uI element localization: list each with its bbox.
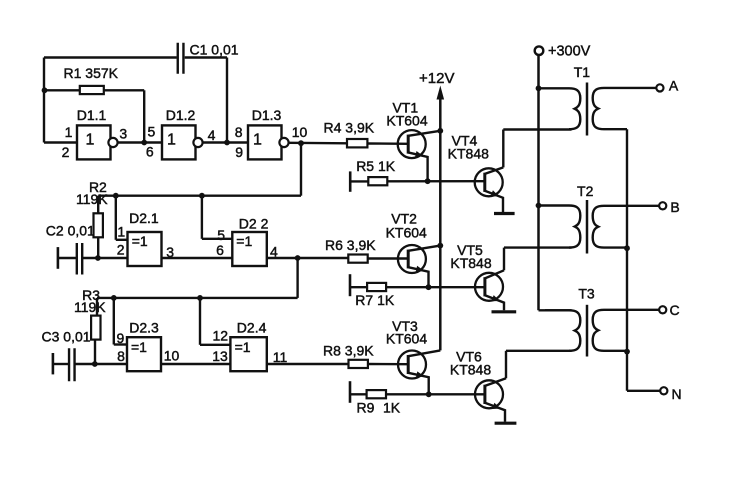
svg-text:119K: 119K [74, 299, 106, 315]
svg-text:C: C [669, 302, 679, 318]
svg-text:R4 3,9K: R4 3,9K [324, 119, 375, 135]
svg-text:R1 357K: R1 357K [64, 65, 119, 81]
svg-text:KT604: KT604 [386, 331, 427, 347]
svg-text:12: 12 [213, 328, 229, 344]
svg-text:T1: T1 [574, 64, 591, 80]
svg-text:D1.1: D1.1 [77, 107, 107, 123]
svg-text:C1 0,01: C1 0,01 [190, 42, 239, 58]
svg-text:10: 10 [292, 124, 308, 140]
svg-text:R6 3,9K: R6 3,9K [325, 237, 376, 253]
svg-text:D2 2: D2 2 [239, 216, 269, 232]
svg-text:B: B [670, 199, 679, 215]
svg-text:9: 9 [235, 144, 243, 160]
svg-text:4: 4 [270, 244, 278, 260]
svg-text:9: 9 [117, 330, 125, 346]
svg-text:1: 1 [117, 223, 125, 239]
svg-text:1: 1 [86, 132, 95, 149]
svg-text:=1: =1 [131, 339, 147, 355]
svg-text:C3 0,01: C3 0,01 [42, 328, 91, 344]
svg-text:R9: R9 [357, 400, 375, 416]
svg-text:+300V: +300V [548, 44, 591, 60]
svg-text:3: 3 [166, 244, 174, 260]
svg-text:1: 1 [253, 132, 262, 149]
svg-text:=1: =1 [235, 339, 251, 355]
svg-text:8: 8 [117, 348, 125, 364]
svg-text:+12V: +12V [419, 70, 454, 87]
svg-text:D2.3: D2.3 [129, 320, 159, 336]
svg-text:T2: T2 [577, 183, 594, 199]
svg-text:3: 3 [119, 126, 127, 142]
svg-text:KT848: KT848 [450, 255, 491, 271]
svg-text:D2.4: D2.4 [237, 320, 267, 336]
svg-text:R7 1K: R7 1K [355, 292, 395, 308]
svg-text:5: 5 [148, 124, 156, 140]
svg-text:119K: 119K [76, 191, 108, 207]
svg-text:R5 1K: R5 1K [356, 158, 396, 174]
svg-text:=1: =1 [236, 233, 252, 249]
svg-text:D1.2: D1.2 [166, 107, 196, 123]
svg-text:KT604: KT604 [386, 224, 427, 240]
svg-text:2: 2 [62, 144, 70, 160]
svg-text:C2 0,01: C2 0,01 [46, 223, 95, 239]
svg-text:A: A [669, 78, 679, 94]
svg-text:=1: =1 [132, 233, 148, 249]
svg-text:D2.1: D2.1 [129, 210, 159, 226]
svg-text:1K: 1K [383, 400, 401, 416]
svg-text:KT848: KT848 [448, 146, 489, 162]
svg-text:5: 5 [217, 227, 225, 243]
svg-text:1: 1 [65, 124, 73, 140]
svg-text:10: 10 [164, 348, 180, 364]
svg-text:11: 11 [273, 349, 288, 365]
svg-text:4: 4 [208, 127, 216, 143]
svg-text:KT604: KT604 [386, 112, 427, 128]
svg-text:R8 3,9K: R8 3,9K [323, 342, 374, 358]
svg-text:8: 8 [235, 124, 243, 140]
svg-text:13: 13 [212, 348, 228, 364]
svg-text:2: 2 [117, 242, 125, 258]
svg-text:T3: T3 [578, 285, 595, 301]
svg-text:6: 6 [216, 242, 224, 258]
svg-text:1: 1 [167, 132, 176, 149]
svg-text:KT848: KT848 [450, 361, 491, 377]
svg-text:N: N [671, 386, 681, 402]
svg-text:6: 6 [146, 144, 154, 160]
svg-text:D1.3: D1.3 [252, 107, 282, 123]
